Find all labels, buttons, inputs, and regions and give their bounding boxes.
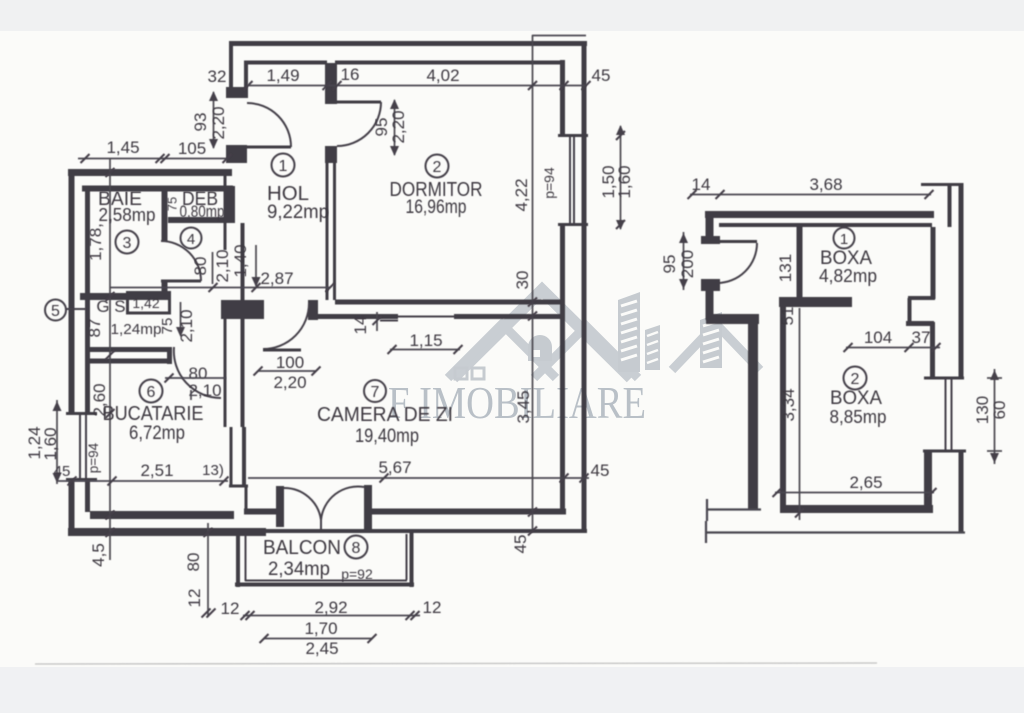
dimension line right vertical [528,35,537,536]
wall GS bottom double upper [88,347,170,352]
svg-text:95: 95 [660,255,679,274]
svg-text:1,60: 1,60 [41,427,60,460]
wall left outer lower [69,478,75,534]
boxa wall center [797,226,803,303]
svg-text:1,42: 1,42 [132,295,159,311]
svg-text:BUCATARIE: BUCATARIE [103,403,204,425]
wall top-left corner vertical outer [229,41,233,89]
svg-text:1,15: 1,15 [409,331,442,350]
dimension 1,50 1,60 window right [616,125,625,230]
wall balcony door right jamb [364,485,372,529]
svg-text:12: 12 [221,599,240,618]
wall DORMITOR bottom [335,300,565,305]
GS closet box [128,293,170,314]
wall corridor bottom corner horizontal [229,485,248,488]
svg-text:12: 12 [423,598,442,617]
watermark roof far right [672,324,760,370]
wall corridor right line [241,223,245,427]
boxa dimension 3,34 vertical [795,308,804,520]
boxa dimension line top [688,190,934,199]
svg-text:p=92: p=92 [341,566,373,582]
dimension 100 220 passage [254,367,321,376]
wall DEB bottom [168,217,235,223]
wall left-top outer (baie block) [68,169,232,176]
wall right inner upper [560,60,565,136]
watermark house windows [455,368,467,379]
wall jamb DORMITOR door lower [325,146,337,163]
svg-text:16,96mp: 16,96mp [406,197,467,218]
wall corridor bottom corner vertical [245,486,248,513]
dimension 75 210 gs door [176,302,185,337]
door HOL leaf [247,146,291,149]
svg-text:60: 60 [990,401,1009,420]
boxa room 1 circle [834,228,855,249]
boxa1 wall right [931,227,936,299]
boxa1 wall bottom [779,297,852,307]
svg-text:1,60: 1,60 [615,165,634,198]
wall jamb HOL door upper [226,87,248,98]
balcony inner left [245,535,247,581]
wall corridor jog left [230,427,233,486]
door corridor-camera leaf [263,349,301,352]
balcony outer right [410,530,414,587]
svg-text:1: 1 [840,231,848,248]
svg-text:80: 80 [191,257,210,276]
dimension left window vertical [53,400,62,484]
svg-text:45: 45 [592,66,611,85]
watermark building bar 1 [618,292,640,372]
room 5 leader line [66,308,86,310]
dimension line 5,67 [248,474,589,483]
svg-text:30: 30 [513,271,532,290]
svg-text:1,45: 1,45 [106,138,139,157]
dimension vertical left x110 [106,158,115,560]
boxa2 wall bottom [780,505,933,513]
dimension 80 210 corridor vertical line [212,252,214,284]
window kitchen sill bottom [66,478,97,481]
boxa wall top inner [719,223,932,227]
svg-text:8,85mp: 8,85mp [830,406,887,427]
dimension 1,15 [388,345,463,354]
boxa wall left lower [706,290,714,320]
wall camera bottom thick [370,509,566,515]
wall top inner DORMITOR [335,61,562,65]
wall GS bottom end cap [167,347,172,364]
dimension line 2,87 [110,283,335,292]
svg-text:2,10: 2,10 [213,249,232,282]
svg-text:G S: G S [96,297,125,316]
watermark building bar 3 [700,312,722,368]
room 5 circle [45,300,66,321]
wall DEB right [225,186,235,223]
boxa step wall vertical [908,298,912,322]
svg-text:6: 6 [147,384,156,401]
wall balcony door left jamb [276,486,284,527]
svg-text:CAMERA DE ZI: CAMERA DE ZI [317,404,453,426]
balcony inner bottom [245,580,407,582]
boxa corner cap top right [921,183,962,186]
room 2 circle [426,155,449,178]
dimension 14 camera [373,312,399,331]
svg-text:2,58mp: 2,58mp [99,204,156,225]
boxa door arc [717,243,757,283]
boxa door jamb lower [701,279,720,291]
wall right inner lower [560,224,565,512]
window right glass lines [569,137,571,224]
svg-text:1: 1 [279,158,288,175]
room 3 circle [116,231,139,254]
svg-text:37: 37 [912,328,931,347]
svg-text:5,67: 5,67 [378,458,411,477]
wall jamb HOL door lower [226,145,247,163]
wall end block left of camera opening [308,300,318,320]
wall baie right [162,186,168,241]
watermark house door arch [528,335,552,361]
boxa plan [660,175,1009,543]
svg-text:2,92: 2,92 [314,598,347,617]
svg-text:45: 45 [511,535,530,554]
svg-text:87: 87 [85,319,104,338]
boxa2 wall right lower [924,451,932,513]
paper edge faint line [35,663,877,664]
svg-text:9,22mp: 9,22mp [267,202,329,223]
svg-text:0,80mp: 0,80mp [180,203,225,221]
svg-text:2,10: 2,10 [188,381,221,400]
boxa dimension line 104 [844,343,941,352]
svg-text:4,22: 4,22 [512,178,531,211]
watermark group [388,290,760,428]
ink group [66,41,588,587]
svg-text:2,10: 2,10 [177,309,196,342]
wall bottom outer left [68,528,266,536]
svg-text:3,34: 3,34 [779,388,798,421]
boxa entry bottom line [707,499,761,521]
wall HOL bottom right part [454,314,565,319]
boxa room 2 circle [844,367,867,390]
wall baie right lower stub [162,282,168,297]
boxa2 wall left [780,298,786,513]
wall segment corridor to balcony door [244,509,278,515]
dimension vertical x208 bottom [202,523,216,618]
boxa wall right inner top [948,183,952,227]
svg-text:2: 2 [851,371,860,388]
svg-text:4: 4 [187,231,195,248]
wall HOL bottom opening thin part [398,316,454,318]
wall jamb DORMITOR door upper [325,63,337,104]
svg-text:1,40: 1,40 [231,244,250,277]
svg-text:14: 14 [351,316,370,335]
balcony outer bottom [235,583,414,587]
svg-text:2: 2 [433,159,442,176]
boxa step wall horizontal 1 [908,296,935,300]
dimensions main plan [25,35,877,664]
wall right outer [582,41,587,531]
watermark roof left small [448,324,556,378]
svg-text:2,87: 2,87 [260,269,293,288]
watermark roof right small [534,326,638,378]
svg-text:14: 14 [692,175,711,194]
dimension line right top extension [532,35,586,37]
svg-text:1,24mp: 1,24mp [111,321,162,338]
svg-text:3,45: 3,45 [514,390,533,423]
boxa wall right outer lower [959,451,964,533]
boxa wall corner horizontal [706,314,759,324]
watermark building bar 2 [645,325,660,370]
boxa window sill top [924,377,964,380]
wall bottom outer line right part [265,529,587,533]
door balcony left arc [284,488,321,520]
room labels main plan [45,154,483,583]
svg-text:1,78,: 1,78, [86,223,105,261]
boxa wall left upper [706,211,714,237]
balcony outer left [236,532,240,587]
door BAIE leaf [161,280,201,283]
svg-text:200: 200 [678,250,697,278]
boxa dimension line 2,65 [773,488,937,497]
svg-text:45: 45 [54,463,71,480]
svg-text:80: 80 [184,553,203,572]
svg-text:BALCON: BALCON [263,537,341,559]
svg-text:5: 5 [51,303,60,320]
boxa step wall horizontal 2 [906,321,934,326]
svg-text:51: 51 [778,307,797,326]
svg-text:2,51: 2,51 [140,461,173,480]
svg-text:2,65: 2,65 [849,473,882,492]
dimension line 2,51 13 [58,477,229,486]
dimension 95 220 vertical [390,99,399,156]
svg-text:12: 12 [185,589,204,608]
svg-text:93: 93 [191,113,210,132]
wall corridor left line upper [224,176,227,250]
svg-text:131: 131 [776,254,795,282]
boxa window sill bottom [923,450,966,453]
dimension line top [244,81,591,90]
boxa door jamb upper [701,236,720,244]
boxa wall right outer upper [959,183,964,377]
wall top inner HOL [244,61,327,65]
wall kitchen bottom inner [90,511,234,519]
svg-text:104: 104 [864,328,892,347]
svg-text:4,02: 4,02 [426,66,459,85]
boxa window glass lines [945,379,947,450]
svg-text:7: 7 [371,384,380,401]
door DORMITOR leaf [337,101,381,104]
wall corridor jog right [242,427,246,486]
boxa dimension 130 60 [987,369,1002,464]
wall left-top inner [82,186,233,192]
wall left inner vertical [85,186,90,412]
wall HOL bottom left part [314,314,398,319]
svg-text:2,20: 2,20 [389,110,408,143]
svg-text:32: 32 [208,67,227,86]
svg-text:19,40mp: 19,40mp [355,426,419,447]
room 1 circle [272,154,295,177]
door corridor-camera arc [263,303,309,349]
boxa wall entry vertical [748,319,758,509]
wall GS top [80,293,170,300]
svg-text:3: 3 [123,235,132,252]
door BAIE arc [161,241,201,281]
svg-text:6,72mp: 6,72mp [129,423,185,444]
svg-text:p=94: p=94 [541,167,557,199]
svg-text:100: 100 [276,353,304,372]
wall divider HOL-DORMITOR double [326,163,329,300]
wall corridor block [221,300,264,319]
svg-text:13): 13) [202,462,224,479]
svg-text:4,82mp: 4,82mp [819,265,877,286]
dimension 93 220 vertical [209,91,218,149]
svg-text:4,5: 4,5 [89,543,108,567]
dimension line 1,70 [260,634,377,643]
svg-text:1,49: 1,49 [266,66,299,85]
room 4 circle [181,228,202,249]
boxa wall top outer [705,211,934,218]
window kitchen glass lines [79,415,81,478]
dimension 1,40 vertical [252,245,261,287]
svg-text:2,20: 2,20 [273,373,306,392]
wall GS bottom double lower [88,359,170,364]
dimension line gs door [165,374,227,401]
room 6 circle [140,380,163,403]
door balcony cusp tail [320,520,322,530]
watermark roof big central [453,290,631,378]
svg-text:8: 8 [352,540,361,557]
wall left outer upper [69,169,75,414]
boxa outer bottom line [706,521,965,543]
svg-text:1,70: 1,70 [304,619,337,638]
window right sill bottom [558,223,588,226]
boxa2 wall right upper [930,322,935,378]
svg-text:16: 16 [341,65,360,84]
window right sill top [558,134,588,137]
room 8 circle [345,536,368,559]
dimension line 2,92 [241,611,421,620]
door BUCATARIE arc [174,347,221,398]
wall kitchen inner left lower [85,478,90,512]
wall top-left inner vertical [244,61,248,89]
boxa dimension 95 200 [679,232,688,290]
room 7 circle [364,380,386,402]
window kitchen sill top [66,412,97,415]
door balcony right arc [321,486,364,520]
dimension line top-left 1,45 105 [78,154,232,163]
wall top outer [229,41,587,46]
svg-text:2,20: 2,20 [209,106,228,139]
door HOL arc [247,103,291,147]
svg-text:75: 75 [165,197,180,211]
balcony inner right [406,534,408,580]
svg-text:105: 105 [178,139,206,158]
svg-text:2,45: 2,45 [305,639,338,658]
svg-text:3,68: 3,68 [809,175,842,194]
svg-text:p=94: p=94 [86,442,101,473]
svg-text:2,34mp: 2,34mp [268,559,330,580]
door DORMITOR arc [337,102,381,146]
wall corridor left line lower [224,319,227,427]
svg-text:75: 75 [159,318,176,335]
boxa door leaf [717,240,757,243]
svg-text:45: 45 [591,461,610,480]
